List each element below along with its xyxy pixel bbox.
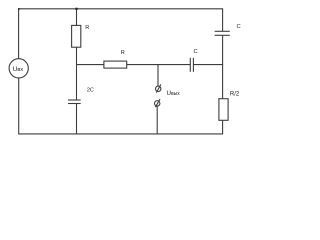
capacitor C right plate (192, 58, 194, 72)
wire branch from top rail down to R (76, 9, 78, 26)
wire right rail lower (222, 120, 224, 134)
wire mid horizontal middle segment (127, 64, 191, 66)
wire mid horizontal left segment (77, 64, 105, 66)
resistor R/2 body (219, 99, 228, 121)
svg-text:C: C (237, 24, 241, 30)
wire from R down through mid junction to 2C (76, 47, 78, 100)
svg-text:2C: 2C (87, 87, 94, 93)
wire output branch down from mid wire (157, 65, 159, 87)
wire 2C to bottom rail (76, 104, 78, 134)
junction dot branch/top rail (75, 8, 77, 10)
svg-text:R/2: R/2 (230, 92, 240, 98)
wire top rail (18, 8, 223, 10)
svg-text:R: R (121, 50, 125, 56)
svg-text:Uвх: Uвх (13, 66, 24, 73)
wire left vertical lower (18, 78, 20, 134)
source U_in circle (9, 59, 28, 78)
resistor R horizontal body (104, 61, 127, 68)
terminal output lower (155, 99, 161, 107)
svg-text:C: C (194, 49, 198, 55)
capacitor C left plate (189, 58, 191, 72)
resistor R vertical body (72, 25, 81, 47)
junction dot top-left corner (18, 8, 20, 10)
svg-text:R: R (85, 25, 89, 31)
capacitor 2C top plate (68, 99, 81, 101)
wire left vertical upper (18, 9, 20, 59)
capacitor C vertical bottom plate (215, 34, 230, 36)
svg-text:Uвых: Uвых (167, 90, 181, 97)
capacitor 2C bottom plate (68, 103, 81, 105)
wire lower terminal to bottom rail (156, 106, 158, 134)
wire mid horizontal right segment (193, 64, 223, 66)
capacitor C vertical top plate (215, 30, 230, 32)
wire right rail upper (222, 9, 224, 32)
wire bottom rail (18, 133, 223, 135)
terminal output upper (156, 84, 161, 92)
wire right rail middle (222, 35, 224, 98)
